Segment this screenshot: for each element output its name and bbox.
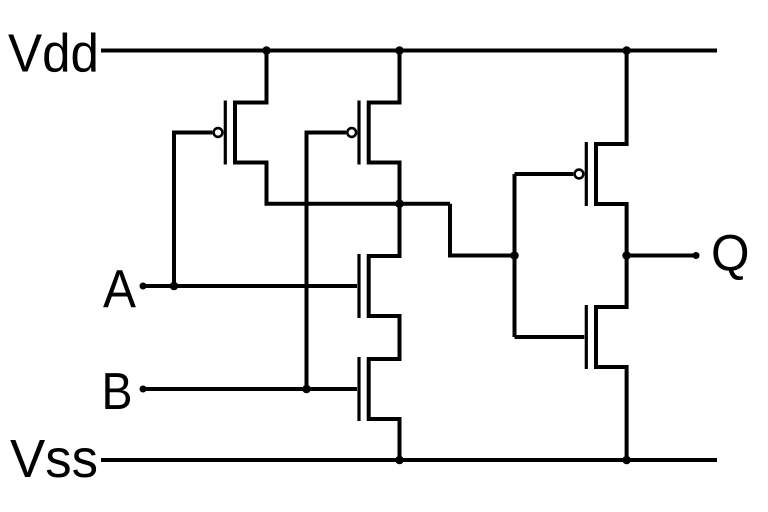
wire NAND output to inverter input [450, 204, 515, 256]
wire P2 drain down to NAND output node [369, 163, 400, 204]
wire P3 source to Vdd [596, 51, 627, 145]
svg-text:Q: Q [711, 225, 750, 282]
wire Q output [627, 254, 696, 258]
svg-text:B: B [102, 363, 133, 421]
wire N2 source to Vss [369, 419, 400, 460]
junction Vdd-P2 [395, 46, 404, 55]
transistor N3 (inverter NMOS) [586, 305, 596, 369]
svg-text:Vss: Vss [10, 429, 98, 489]
transistor N2 (NMOS, gate B) [359, 357, 369, 421]
transistor N1 (NMOS, gate A) [359, 254, 369, 318]
transistor P2 (PMOS, gate B) [347, 101, 368, 165]
junction Vdd-P1 [262, 46, 271, 55]
wire B branch up to P2 gate [307, 133, 347, 390]
junction output node [622, 251, 631, 260]
wire P1 drain to NAND output node [235, 163, 450, 204]
wire N1 drain up to NAND output node [369, 204, 400, 256]
wire P2 source to Vdd [369, 51, 400, 103]
wire N3 source to Vss [596, 367, 627, 460]
junction inverter input [510, 251, 519, 260]
transistor P3 (inverter PMOS) [575, 142, 596, 206]
junction Vss-N3 [622, 456, 631, 465]
wire P3 gate [515, 172, 574, 176]
wire N3 drain up to output node [596, 256, 627, 308]
junction Vdd-P3 [622, 46, 631, 55]
wire P1 source to Vdd [235, 51, 267, 103]
terminal B [140, 386, 147, 393]
junction Vss-N2 [395, 456, 404, 465]
wire N3 gate [515, 335, 585, 339]
svg-text:A: A [103, 260, 136, 320]
Vss rail [101, 458, 717, 462]
junction A branch [170, 282, 179, 291]
wire N1 source to N2 drain [369, 316, 400, 359]
transistor P1 (PMOS, gate A) [214, 101, 235, 165]
wire A input [143, 284, 357, 288]
wire B input [143, 387, 357, 391]
Vdd rail [101, 49, 717, 53]
junction NAND output node [395, 199, 404, 208]
junction B branch [302, 385, 311, 394]
wire A branch up to P1 gate [174, 133, 212, 287]
terminal A [140, 283, 147, 290]
wire P3 drain to output node [596, 204, 627, 256]
svg-text:Vdd: Vdd [8, 24, 99, 84]
wire inverter input vertical [513, 174, 517, 337]
terminal Q [693, 252, 700, 259]
